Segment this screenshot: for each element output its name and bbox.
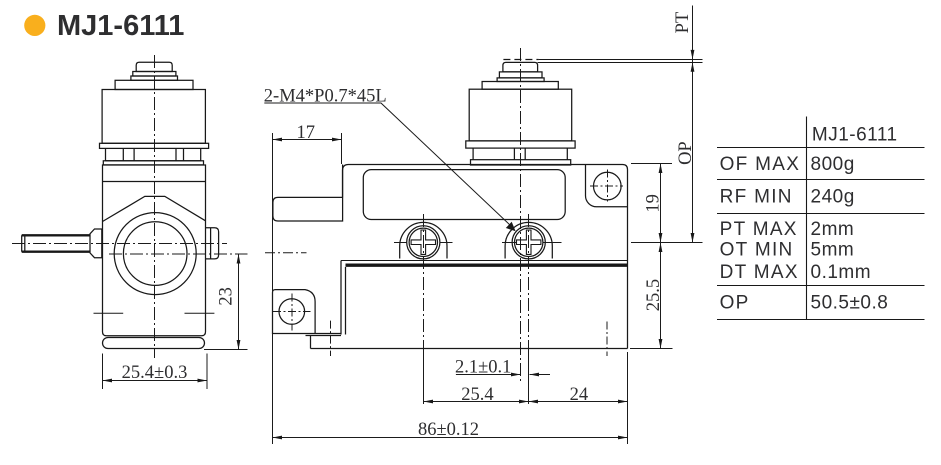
front bushing cylinder — [102, 90, 205, 144]
svg-text:2-M4*P0.7*45L: 2-M4*P0.7*45L — [264, 87, 387, 107]
screw mount 2 — [505, 222, 552, 258]
side mounting hole top-right — [594, 172, 622, 200]
front body upper band line — [103, 181, 206, 183]
front plunger step 2 — [133, 72, 176, 77]
svg-text:25.4: 25.4 — [461, 385, 493, 405]
side body top outline — [343, 165, 628, 349]
screw 2 phillips cross — [517, 230, 541, 254]
screw mount 1 — [400, 222, 447, 258]
svg-text:5mm: 5mm — [811, 240, 855, 261]
svg-text:0.1mm: 0.1mm — [811, 262, 872, 283]
side view OP reference centerline — [265, 252, 307, 254]
front base bar — [103, 338, 205, 349]
dimension 24 — [529, 352, 628, 444]
side inner cover plate — [363, 170, 565, 220]
svg-text:25.4±0.3: 25.4±0.3 — [122, 363, 188, 383]
dimension 25.4 — [424, 400, 529, 404]
side bushing cylinder — [469, 89, 572, 141]
side view vertical centerline — [520, 48, 522, 383]
svg-text:PT: PT — [673, 12, 693, 34]
screw centerlines horizontal — [394, 242, 562, 244]
front view vertical centerline — [154, 55, 156, 358]
label underline and leader — [264, 103, 515, 231]
PT dimension arrows — [691, 6, 695, 243]
front lower flange — [103, 161, 203, 165]
svg-text:PT MAX: PT MAX — [720, 219, 798, 240]
base left bracket — [341, 261, 346, 335]
front bushing flange — [100, 143, 209, 148]
front pin centerline — [12, 243, 227, 245]
side plunger step3 — [497, 78, 544, 82]
front circle horizontal centerline — [109, 253, 248, 255]
front chamfer boss — [103, 196, 206, 221]
dimension 86±0.12 — [273, 436, 628, 440]
front plunger step 3 — [131, 76, 178, 80]
screw 1 phillips cross — [411, 230, 435, 254]
svg-text:86±0.12: 86±0.12 — [418, 420, 479, 440]
side terminal strip — [473, 148, 567, 160]
PT lower line — [538, 62, 703, 64]
side mounting hole top-right centerlines — [590, 170, 623, 202]
svg-text:2mm: 2mm — [811, 219, 855, 240]
base bottom edge — [311, 348, 628, 350]
screw 1 outer — [407, 226, 440, 259]
svg-text:RF MIN: RF MIN — [720, 187, 793, 208]
svg-text:800g: 800g — [811, 154, 855, 175]
side plunger plate — [482, 82, 558, 90]
side body ear cut — [586, 165, 628, 207]
side plunger step2 — [499, 72, 542, 78]
dimension 2.1±0.1 lines — [456, 373, 550, 377]
front plunger cap — [136, 62, 172, 71]
extension line body top right — [631, 163, 672, 165]
front inner circle — [123, 222, 187, 286]
front terminal strip — [106, 148, 201, 160]
side bushing flange — [466, 141, 575, 148]
bottom-left ear — [272, 290, 341, 336]
svg-text:OP: OP — [676, 141, 696, 165]
front pin nut — [90, 229, 102, 258]
svg-text:50.5±0.8: 50.5±0.8 — [811, 293, 889, 314]
svg-text:240g: 240g — [811, 187, 855, 208]
base foot — [310, 336, 312, 349]
screw 1 inner — [409, 228, 437, 256]
front pin rod end — [22, 235, 25, 251]
svg-text:23: 23 — [216, 287, 236, 306]
screw 2 outer — [512, 226, 545, 259]
side left arm — [273, 165, 343, 222]
base mounting centerline right — [606, 322, 608, 357]
svg-text:OT MIN: OT MIN — [720, 240, 794, 261]
bottom-left mounting hole centerlines — [273, 294, 311, 331]
PT upper line — [539, 59, 703, 61]
screw 1 vertical centerline — [423, 214, 425, 350]
extension line base bottom right — [630, 348, 673, 350]
dimension 25.4±0.3 — [103, 354, 208, 390]
base top thick line — [346, 264, 628, 267]
front side tick marks — [94, 312, 215, 314]
side lower flange — [471, 160, 571, 165]
svg-text:19: 19 — [643, 194, 663, 213]
dimension 25.5 — [659, 243, 663, 349]
table horizontal lines — [717, 148, 925, 320]
front outer circle — [114, 213, 196, 295]
table vertical line — [806, 117, 808, 320]
svg-text:MJ1-6111: MJ1-6111 — [57, 10, 184, 42]
screw 2 vertical centerline — [528, 214, 530, 350]
base mounting centerline left — [330, 321, 332, 356]
extension line screw level right — [631, 242, 703, 244]
svg-text:24: 24 — [570, 385, 589, 405]
svg-text:OP: OP — [720, 293, 750, 314]
screw 2 inner — [515, 228, 543, 256]
title bullet dot — [24, 15, 45, 36]
svg-text:17: 17 — [296, 123, 315, 143]
svg-text:MJ1-6111: MJ1-6111 — [812, 124, 898, 145]
front right tab — [206, 228, 219, 259]
front pin rod — [22, 235, 90, 251]
front main body — [103, 165, 206, 336]
side plunger released dashed line — [503, 59, 538, 61]
base top thin line — [341, 260, 628, 262]
front plunger plate — [115, 80, 193, 89]
svg-text:25.5: 25.5 — [644, 279, 664, 311]
side plunger cap — [503, 62, 538, 72]
bottom-left mounting hole — [279, 299, 305, 325]
dimension 17 — [273, 133, 342, 444]
svg-text:OF MAX: OF MAX — [720, 154, 801, 175]
dimension 23 — [204, 254, 248, 350]
svg-text:DT MAX: DT MAX — [720, 262, 799, 283]
dimension 19 — [659, 164, 663, 243]
